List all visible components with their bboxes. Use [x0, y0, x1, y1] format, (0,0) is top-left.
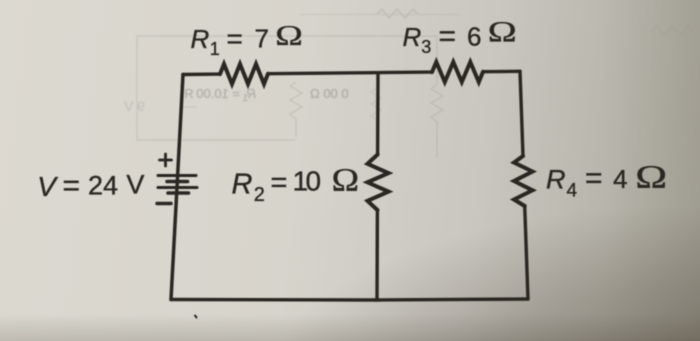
ghost faint horizontal line top	[300, 14, 460, 16]
circuit layer	[157, 62, 533, 318]
battery plus sign	[160, 154, 172, 166]
battery V plate 3 (long)	[158, 186, 197, 189]
wire: bottom (left corner to right corner)	[171, 299, 528, 300]
svg-text:R: R	[191, 24, 210, 54]
ghost marks top right	[652, 26, 693, 36]
svg-text:=: =	[585, 162, 603, 195]
svg-text:6: 6	[467, 21, 481, 51]
ghost left wire	[136, 36, 138, 141]
svg-text:2: 2	[254, 184, 265, 206]
svg-text:4: 4	[613, 164, 627, 194]
wire: top middle segment (R1 to R3)	[268, 72, 432, 74]
svg-text:R: R	[546, 164, 566, 194]
svg-text:Ω: Ω	[332, 161, 359, 198]
svg-text:=: =	[227, 23, 243, 54]
ghost resistor zigzag middle	[290, 82, 302, 137]
wire: top right segment (R3 to corner)	[483, 70, 520, 74]
svg-text:1: 1	[242, 93, 248, 104]
ghost bottom wire	[137, 139, 296, 141]
ghost small dash left	[181, 106, 197, 108]
ghost zigzag near middle wire	[371, 88, 381, 120]
svg-text:R: R	[232, 168, 253, 200]
svg-text:Ω: Ω	[275, 20, 303, 52]
svg-text:Ω: Ω	[488, 15, 517, 49]
wire: right upper (top corner to R4)	[520, 71, 523, 156]
svg-text:Ω: Ω	[635, 159, 667, 195]
battery V plate 2 (short)	[167, 180, 188, 184]
resistor R1 (7 ohm, horizontal)	[220, 64, 268, 84]
ghost zigzag top center	[377, 9, 418, 18]
svg-text:=: =	[63, 170, 81, 203]
svg-text:V: V	[126, 170, 144, 200]
svg-text:3: 3	[421, 37, 431, 57]
svg-text:R: R	[403, 22, 422, 52]
svg-text:4: 4	[567, 181, 578, 202]
battery minus sign	[157, 202, 171, 205]
wire: middle lower (R2 to bottom junction)	[375, 210, 379, 300]
battery V plate 4 (short)	[168, 191, 189, 195]
svg-text:1: 1	[210, 39, 220, 59]
ghost top wire	[137, 35, 437, 37]
resistor R3 (6 ohm, horizontal)	[432, 62, 483, 82]
wire: middle upper (top junction to R2)	[376, 73, 380, 155]
stray dot below bottom-left	[195, 316, 197, 318]
battery V plate 1 (long, +)	[158, 174, 196, 177]
svg-text:=: =	[271, 167, 288, 199]
svg-text:9 V: 9 V	[123, 98, 145, 114]
svg-text:=: =	[439, 20, 457, 53]
wire: top left segment (corner to R1)	[183, 72, 220, 76]
svg-text:V: V	[37, 171, 58, 202]
wire: left (corner down through battery to bottom corner)	[171, 75, 183, 300]
ghost show-through layer	[137, 9, 693, 158]
ghost mirrored text	[123, 86, 348, 114]
ghost right wire with zigzag	[431, 36, 443, 158]
resistor R4 (4 ohm, vertical)	[514, 156, 533, 206]
wire: right lower (R4 to bottom corner)	[525, 206, 528, 299]
svg-text:7: 7	[255, 24, 269, 54]
svg-text:0: 0	[306, 166, 322, 197]
svg-text:Ω 00 0: Ω 00 0	[310, 86, 349, 101]
svg-text:24: 24	[88, 171, 118, 201]
resistor R2 (10 ohm, vertical)	[368, 155, 389, 211]
